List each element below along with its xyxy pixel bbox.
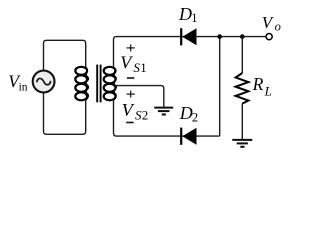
svg-text:in: in bbox=[19, 81, 28, 93]
ground (under RL) bbox=[232, 140, 252, 147]
transformer T1: core bbox=[97, 65, 100, 103]
node: junction dot (D2 riser on top rail) bbox=[217, 34, 222, 39]
node: junction dot (RL tap on top rail) bbox=[240, 34, 245, 39]
svg-text:2: 2 bbox=[192, 110, 198, 124]
wire: RL bottom lead bbox=[241, 104, 243, 139]
svg-text:1: 1 bbox=[140, 60, 147, 75]
svg-text:R: R bbox=[252, 74, 264, 94]
resistor RL bbox=[236, 73, 249, 104]
label + (VS2 top) bbox=[127, 91, 135, 98]
wire: RL top lead bbox=[241, 37, 243, 73]
source Vin (AC) bbox=[33, 71, 55, 93]
label - (VS1 bottom) bbox=[127, 77, 134, 79]
svg-text:D: D bbox=[178, 4, 192, 24]
diode D1 bbox=[180, 28, 196, 45]
ground (center tap) bbox=[154, 108, 173, 115]
transformer T1: secondary coil bbox=[104, 67, 116, 101]
wire: center tap to ground bbox=[115, 86, 164, 107]
wire: secondary bottom lead to D2 bbox=[114, 100, 220, 136]
wire: D2 cathode riser up to top rail bbox=[219, 37, 221, 137]
diode D2 bbox=[180, 128, 196, 145]
svg-text:o: o bbox=[275, 19, 281, 33]
transformer T1: primary coil bbox=[75, 67, 88, 101]
label - (VS2 bottom) bbox=[126, 122, 133, 124]
label + (VS1 top) bbox=[127, 44, 135, 51]
svg-text:1: 1 bbox=[191, 11, 197, 25]
svg-text:2: 2 bbox=[142, 107, 149, 122]
wire: input loop (left rectangle) bbox=[44, 40, 86, 134]
wire: secondary top lead to D1 and output bbox=[114, 37, 266, 67]
svg-text:D: D bbox=[179, 103, 193, 123]
svg-text:L: L bbox=[264, 83, 272, 98]
terminal Vo (open circle) bbox=[266, 34, 272, 40]
